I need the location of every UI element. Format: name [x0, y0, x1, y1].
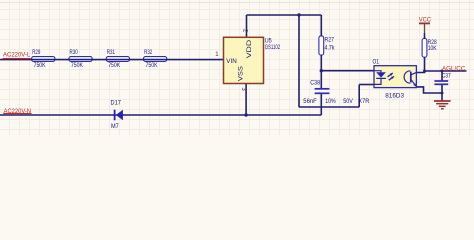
- svg-text:R31: R31: [107, 49, 115, 56]
- svg-text:X7R: X7R: [358, 98, 369, 105]
- svg-text:VIN: VIN: [226, 58, 237, 65]
- svg-text:4.7k: 4.7k: [325, 45, 336, 52]
- svg-text:750K: 750K: [71, 62, 84, 69]
- svg-text:AGL/CC: AGL/CC: [442, 65, 466, 72]
- svg-text:D17: D17: [111, 99, 122, 106]
- svg-text:50V: 50V: [343, 98, 353, 105]
- svg-text:750K: 750K: [108, 62, 121, 69]
- svg-text:C37: C37: [442, 73, 451, 80]
- svg-text:10K: 10K: [428, 45, 438, 52]
- svg-text:R29: R29: [32, 49, 40, 56]
- svg-text:GS1102: GS1102: [265, 44, 281, 51]
- svg-text:AC220V-L: AC220V-L: [3, 51, 31, 58]
- svg-text:750K: 750K: [34, 62, 47, 69]
- svg-text:VDD: VDD: [246, 39, 253, 58]
- svg-text:R30: R30: [70, 49, 78, 56]
- svg-text:56nF: 56nF: [303, 98, 317, 105]
- svg-text:10%: 10%: [325, 98, 336, 105]
- svg-text:C38: C38: [310, 79, 320, 86]
- svg-text:O1: O1: [373, 58, 380, 65]
- svg-text:R32: R32: [144, 49, 152, 56]
- svg-text:VCC: VCC: [419, 17, 432, 24]
- svg-text:VSS: VSS: [237, 65, 244, 81]
- svg-text:816D3: 816D3: [385, 93, 404, 100]
- svg-text:R27: R27: [325, 37, 335, 44]
- svg-text:750K: 750K: [146, 62, 159, 69]
- svg-text:M7: M7: [111, 123, 119, 130]
